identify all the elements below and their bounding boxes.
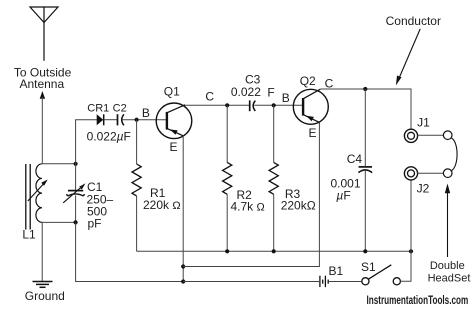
jack J1 [404, 129, 417, 142]
svg-text:Conductor: Conductor [386, 14, 441, 28]
label R2 4.7k ohm [231, 188, 265, 214]
svg-text:220k Ω: 220k Ω [143, 198, 181, 212]
node bottom rail / headset wire [409, 249, 413, 253]
node B (junction at R1 top) [135, 118, 139, 122]
label C4 0.001 uF [331, 152, 363, 202]
svg-text:0.022µF: 0.022µF [87, 129, 131, 143]
svg-text:InstrumentationTools.com: InstrumentationTools.com [367, 295, 469, 308]
svg-text:B: B [142, 106, 150, 120]
transistor Q2 [293, 89, 328, 124]
node C4 top [363, 87, 367, 91]
node F (R3 top) [272, 103, 276, 107]
battery B1 [320, 276, 328, 287]
svg-text:Q2: Q2 [300, 74, 316, 88]
ground [33, 282, 53, 288]
resistor R1 [132, 120, 141, 252]
wire Q1 collector to C3 [185, 104, 250, 106]
svg-text:Q1: Q1 [164, 84, 180, 98]
arrow to antenna (lead-in arrow pointing up) [40, 91, 45, 164]
variable-inductor arrow through L1 [28, 180, 48, 202]
diode CR1 [97, 114, 104, 125]
wire battery to S1 [328, 281, 362, 283]
wire C2 to Q1 base [123, 119, 167, 121]
wire corner at CR1 line down to coil top node [76, 120, 97, 164]
headset cord arc [452, 138, 458, 171]
headset plug wire J1 [418, 134, 444, 136]
node coil bottom / C1 bottom [74, 220, 78, 224]
svg-text:220kΩ: 220kΩ [281, 199, 316, 213]
label To Outside Antenna [14, 66, 72, 92]
svg-text:Antenna: Antenna [19, 77, 64, 91]
svg-text:CR1: CR1 [87, 103, 109, 115]
antenna [30, 7, 58, 61]
svg-text:C4: C4 [347, 152, 363, 166]
label R3 220k ohm [281, 187, 316, 213]
headset terminal circle bottom [443, 169, 452, 178]
arrow Conductor pointer [396, 29, 420, 86]
svg-text:C2: C2 [113, 103, 127, 115]
arrow Double HeadSet pointer [445, 184, 450, 258]
wire Q2 collector to J1 (top right) [320, 89, 411, 129]
node Q1 emitter / bottom rail [181, 279, 185, 283]
svg-text:0.022: 0.022 [231, 85, 261, 99]
switch S1 [362, 265, 401, 285]
wire CR1 to C2 [104, 119, 118, 121]
svg-text:Ground: Ground [25, 289, 65, 303]
wire coil bottom stub [42, 221, 76, 223]
svg-text:E: E [308, 126, 316, 140]
jack J2 [404, 167, 417, 180]
wire Q1 emitter down to bottom rail [182, 136, 184, 282]
L1 iron core bars [26, 164, 30, 230]
node C4 bottom [363, 249, 367, 253]
node R3 bottom [272, 249, 276, 253]
svg-text:L1: L1 [22, 228, 36, 242]
capacitor C2 [118, 114, 124, 125]
node R2 bottom [225, 249, 229, 253]
node R2 top [225, 103, 229, 107]
capacitor C3 [250, 100, 256, 111]
inductor L1 (coil) [36, 164, 42, 223]
svg-text:Double: Double [430, 260, 465, 272]
capacitor C1 (variable) [63, 164, 85, 223]
svg-text:J2: J2 [417, 182, 430, 196]
svg-text:J1: J1 [417, 115, 430, 129]
node Q1 emitter / middle rail [181, 264, 185, 268]
svg-text:C: C [205, 89, 214, 103]
capacitor C4 [358, 89, 372, 251]
resistor R3 [269, 105, 278, 251]
wire battery left (bottom rail) [183, 281, 320, 283]
svg-text:B: B [282, 91, 290, 105]
wire C1 bottom down to battery rail [76, 222, 184, 281]
headset plug wire J2 [418, 172, 444, 174]
svg-text:pF: pF [88, 217, 102, 231]
label R1 220k ohm [143, 186, 181, 212]
transistor Q1 [156, 103, 192, 139]
wire S1 to headset jacks vertical [400, 180, 411, 281]
svg-text:S1: S1 [361, 260, 376, 274]
svg-text:B1: B1 [328, 264, 343, 278]
wire C3 to Q2 base [254, 104, 303, 106]
headset terminal circle top [443, 131, 452, 140]
label Double HeadSet [428, 260, 471, 285]
svg-text:E: E [169, 140, 177, 154]
wire coil top stub [42, 163, 76, 165]
wire bottom distribution rail [137, 250, 411, 252]
svg-text:HeadSet: HeadSet [428, 273, 471, 285]
label C1 250-500 pF [87, 180, 114, 231]
resistor R2 [223, 105, 232, 251]
svg-text:F: F [267, 86, 274, 100]
node coil top / C1 top [74, 162, 78, 166]
svg-text:µF: µF [336, 188, 350, 202]
wire coil bottom to ground [41, 222, 43, 281]
svg-text:4.7k Ω: 4.7k Ω [231, 200, 265, 214]
middle rail (emitter link) [183, 122, 319, 266]
